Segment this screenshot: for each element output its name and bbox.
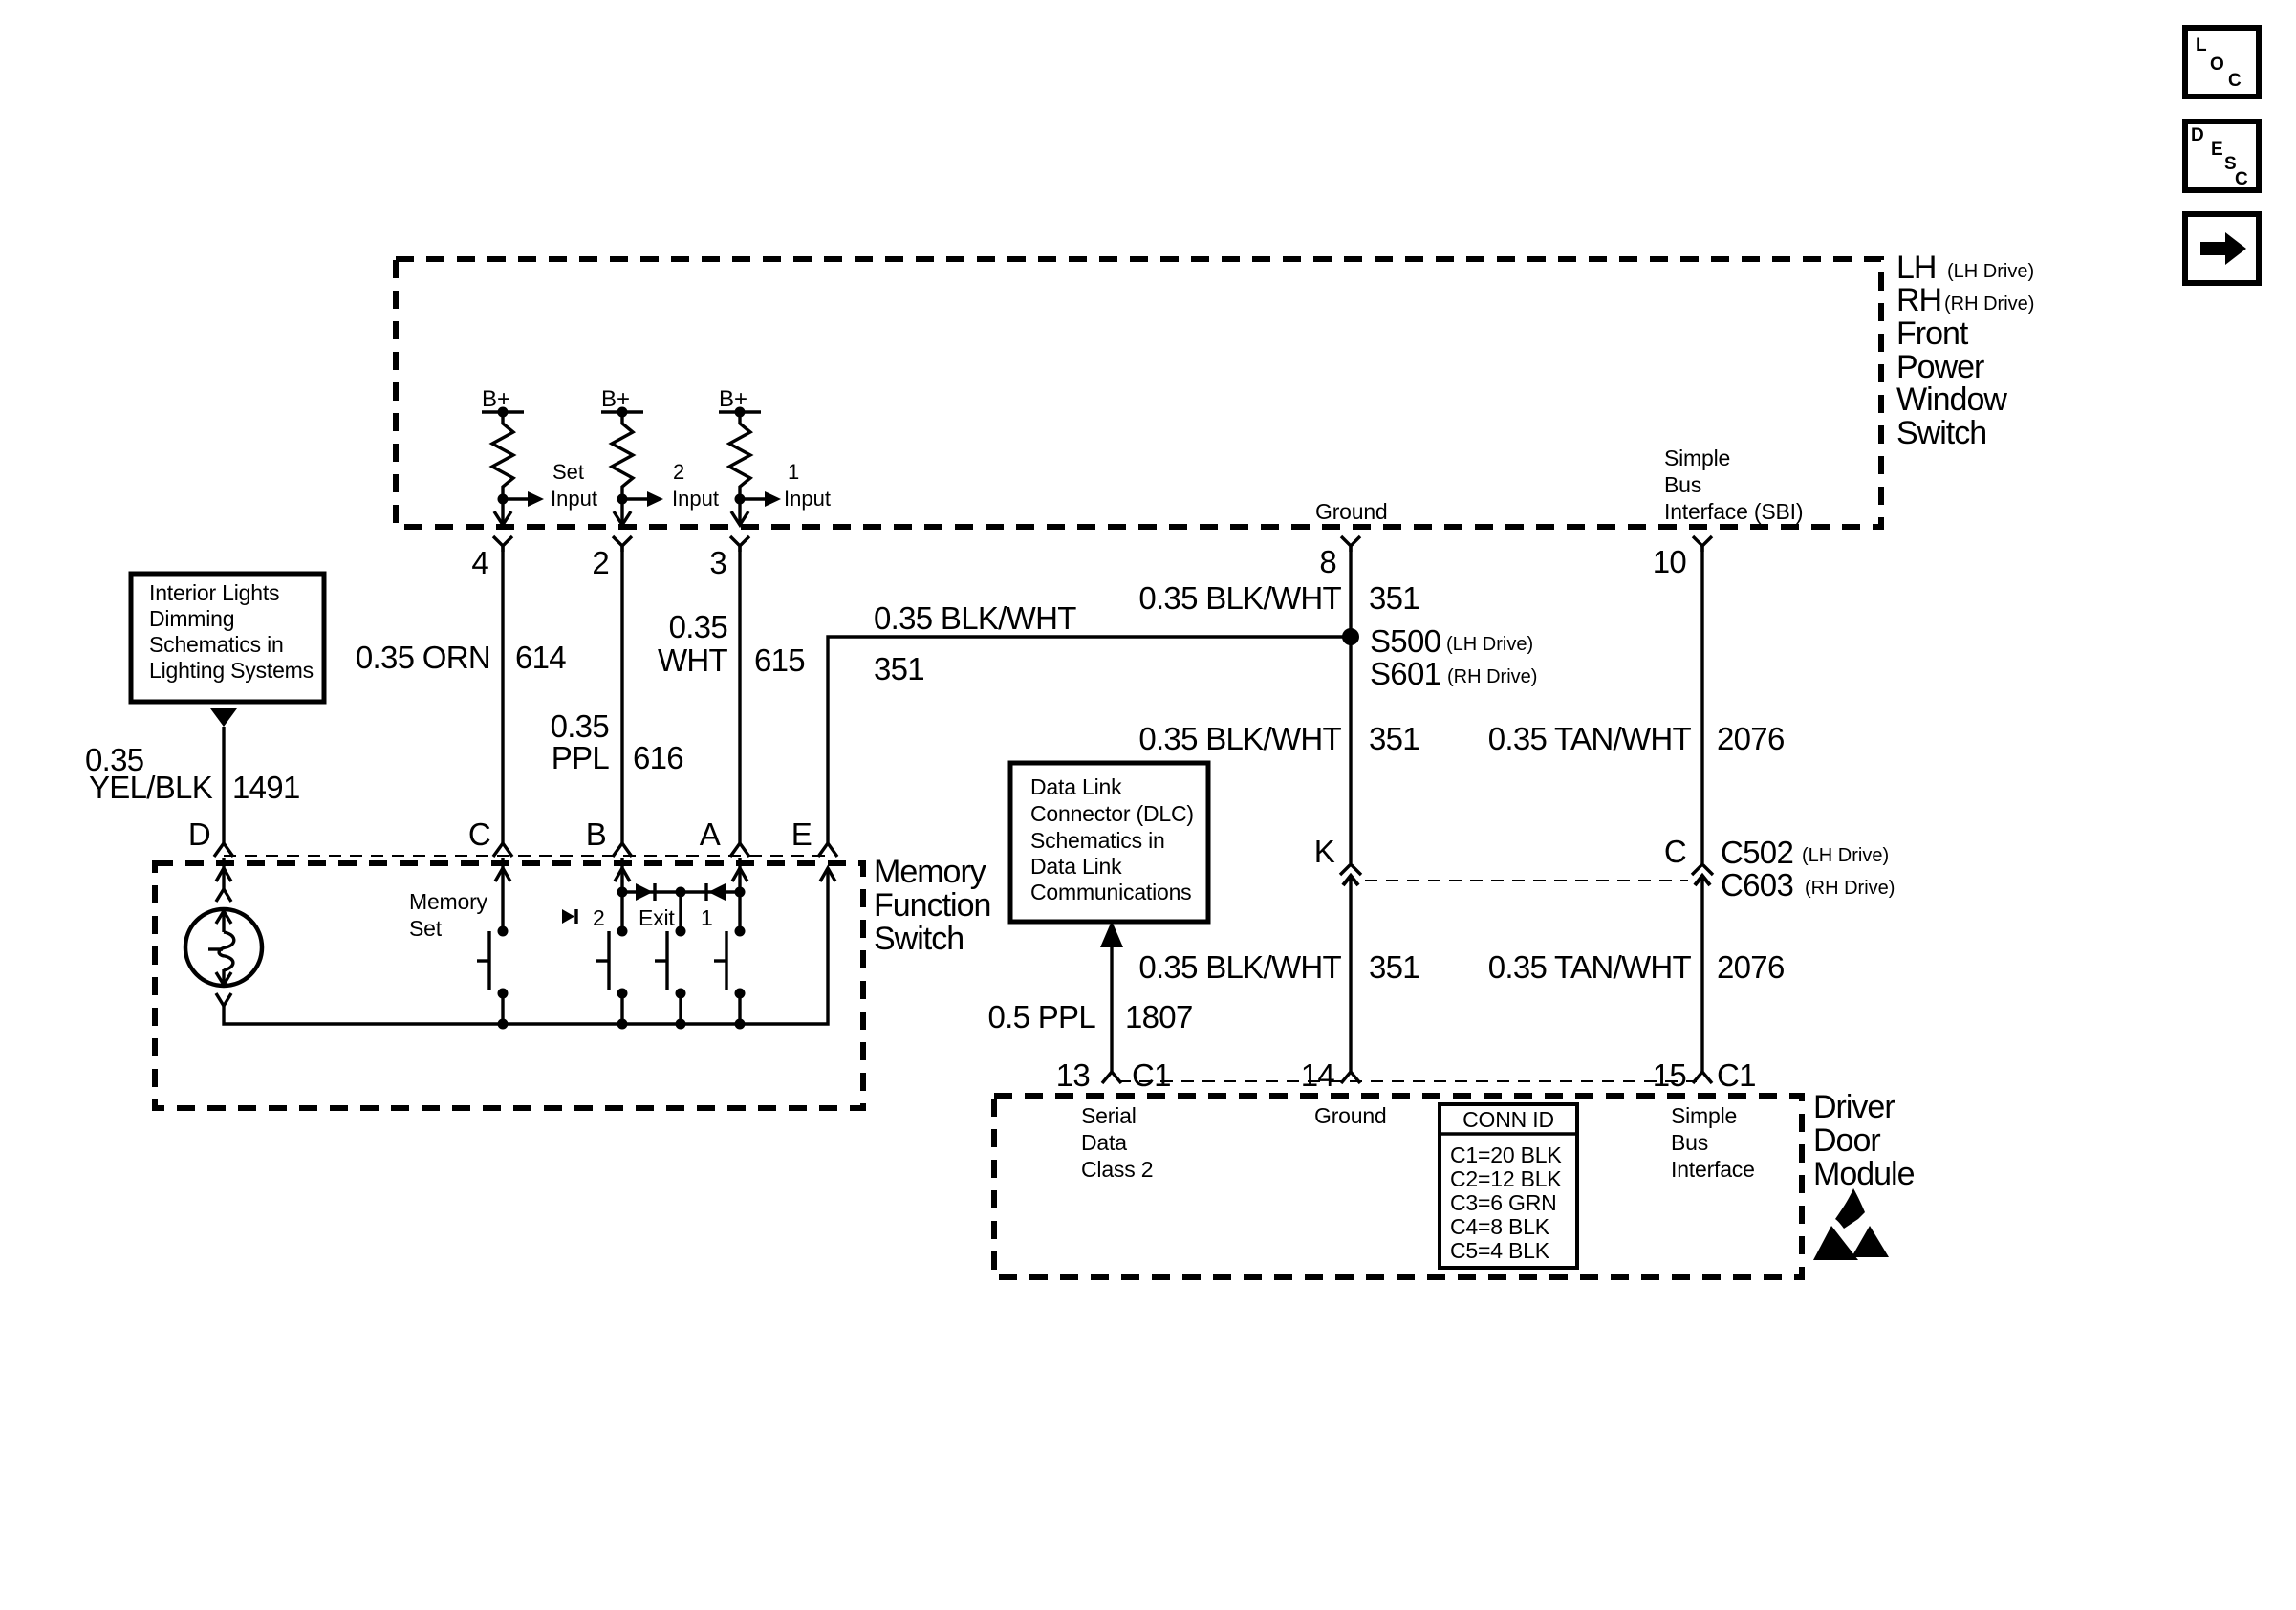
wire exit node down bbox=[679, 892, 682, 931]
svg-text:0.35: 0.35 bbox=[551, 708, 609, 744]
CONN ID table bbox=[1440, 1104, 1577, 1268]
in-line connector C502/C603 bbox=[1692, 835, 1895, 903]
svg-text:1: 1 bbox=[788, 460, 799, 484]
svg-text:C1=20 BLK: C1=20 BLK bbox=[1450, 1142, 1562, 1167]
svg-text:S500: S500 bbox=[1370, 623, 1441, 659]
svg-text:C4=8 BLK: C4=8 BLK bbox=[1450, 1214, 1550, 1239]
svg-text:Interior Lights: Interior Lights bbox=[149, 580, 279, 605]
icon LOC button bbox=[2185, 28, 2259, 97]
inline harness dashed link bbox=[1365, 880, 1688, 881]
svg-text:616: 616 bbox=[633, 740, 683, 775]
junction Memory Set to bus bbox=[498, 1019, 509, 1030]
connector Y pin 3 (female) bbox=[730, 536, 749, 552]
svg-text:4: 4 bbox=[471, 545, 488, 580]
connector chevron pin 15 bbox=[1693, 1072, 1712, 1083]
svg-text:C: C bbox=[1664, 834, 1686, 869]
svg-text:10: 10 bbox=[1653, 544, 1687, 579]
wire lamp to common bus bbox=[224, 868, 828, 1024]
svg-text:Memory: Memory bbox=[874, 854, 986, 890]
svg-text:C3=6 GRN: C3=6 GRN bbox=[1450, 1190, 1557, 1215]
svg-text:K: K bbox=[1314, 834, 1335, 869]
svg-text:1807: 1807 bbox=[1125, 999, 1193, 1034]
svg-text:0.35 BLK/WHT: 0.35 BLK/WHT bbox=[1138, 721, 1341, 756]
svg-text:(LH Drive): (LH Drive) bbox=[1446, 634, 1533, 655]
label Memory Function Switch bbox=[874, 854, 990, 957]
svg-text:S601: S601 bbox=[1370, 656, 1440, 691]
B+ supply node (1 column) bbox=[719, 386, 761, 418]
svg-text:RH: RH bbox=[1896, 282, 1941, 318]
module connector row dashed line bbox=[1118, 1080, 1697, 1082]
svg-text:D: D bbox=[2191, 125, 2204, 145]
label 0.35 YEL/BLK bbox=[85, 742, 213, 805]
splice S500/S601 bbox=[1342, 623, 1537, 691]
junction switch 2 to bus bbox=[617, 1019, 628, 1030]
label 0.35 PPL bbox=[551, 708, 610, 775]
connector Y pin 8 (female) bbox=[1341, 536, 1360, 552]
connector Y pin 4 (female) bbox=[493, 536, 512, 552]
wire K to pin 14 bbox=[1349, 877, 1352, 1073]
svg-text:Ground: Ground bbox=[1315, 499, 1388, 524]
svg-text:Simple: Simple bbox=[1664, 446, 1730, 470]
svg-text:Switch: Switch bbox=[874, 921, 964, 957]
diode isolation row bbox=[617, 887, 746, 898]
svg-text:0.35 TAN/WHT: 0.35 TAN/WHT bbox=[1488, 949, 1692, 985]
label Memory Set bbox=[409, 889, 488, 941]
wire 1491 YEL/BLK bbox=[222, 727, 225, 843]
svg-text:Set: Set bbox=[552, 460, 584, 484]
svg-text:C1: C1 bbox=[1132, 1057, 1171, 1093]
connector chevron pin 13 bbox=[1102, 1072, 1121, 1083]
svg-text:351: 351 bbox=[1369, 580, 1419, 616]
svg-text:L: L bbox=[2196, 35, 2207, 55]
svg-text:Memory: Memory bbox=[409, 889, 488, 914]
off-page pointer triangle bbox=[210, 708, 237, 727]
svg-text:Input: Input bbox=[551, 487, 597, 511]
label 0.35 WHT bbox=[658, 609, 728, 678]
svg-text:(LH Drive): (LH Drive) bbox=[1802, 845, 1889, 866]
svg-text:PPL: PPL bbox=[552, 740, 610, 775]
svg-text:351: 351 bbox=[874, 651, 924, 686]
svg-text:351: 351 bbox=[1369, 949, 1419, 985]
label Simple Bus Interface (module pin 15) bbox=[1671, 1103, 1755, 1182]
svg-text:0.35: 0.35 bbox=[669, 609, 727, 644]
svg-text:C: C bbox=[2228, 71, 2242, 91]
icon DESC button bbox=[2185, 121, 2259, 190]
svg-text:2076: 2076 bbox=[1717, 721, 1785, 756]
svg-text:Class 2: Class 2 bbox=[1081, 1157, 1153, 1182]
B+ supply node (2 column) bbox=[601, 386, 643, 418]
svg-text:Driver: Driver bbox=[1813, 1089, 1895, 1125]
connector row dashed line (memory switch header) bbox=[224, 855, 828, 857]
svg-text:2076: 2076 bbox=[1717, 949, 1785, 985]
icon forward arrow button bbox=[2185, 214, 2259, 283]
svg-text:C502: C502 bbox=[1721, 835, 1793, 870]
svg-text:Data: Data bbox=[1081, 1130, 1127, 1155]
svg-text:Front: Front bbox=[1896, 315, 1969, 352]
illumination lamp bbox=[185, 909, 262, 1006]
svg-text:B: B bbox=[586, 816, 606, 852]
svg-text:(LH Drive): (LH Drive) bbox=[1947, 261, 2034, 282]
connector inverted-Y terminal E bbox=[818, 843, 837, 857]
diode D1 (B to exit node) bbox=[636, 883, 655, 901]
switch Exit bbox=[655, 926, 686, 1025]
svg-text:1: 1 bbox=[701, 905, 713, 930]
svg-text:Data Link: Data Link bbox=[1030, 854, 1122, 879]
svg-text:Simple: Simple bbox=[1671, 1103, 1737, 1128]
arrow Set Input bbox=[503, 460, 597, 511]
junction Exit to bus bbox=[676, 1019, 686, 1030]
svg-text:YEL/BLK: YEL/BLK bbox=[89, 770, 213, 805]
connector inverted-Y terminal A bbox=[730, 843, 749, 857]
svg-text:615: 615 bbox=[754, 642, 805, 678]
ESD sensitivity symbol bbox=[1813, 1188, 1889, 1260]
wire pin3 to terminal A bbox=[738, 546, 741, 843]
switch Memory Set bbox=[477, 926, 509, 1025]
svg-text:8: 8 bbox=[1319, 544, 1336, 579]
svg-text:2: 2 bbox=[592, 545, 609, 580]
in-line connector K bbox=[1340, 864, 1361, 885]
switch window 1 bbox=[714, 926, 746, 1025]
svg-text:Bus: Bus bbox=[1671, 1130, 1708, 1155]
svg-text:CONN ID: CONN ID bbox=[1462, 1107, 1554, 1132]
svg-text:Function: Function bbox=[874, 887, 990, 924]
svg-text:(RH Drive): (RH Drive) bbox=[1944, 294, 2034, 315]
connector inverted-Y terminal C bbox=[493, 843, 512, 857]
label Driver Door Module bbox=[1813, 1089, 1915, 1192]
connector Y pin 10 (female) bbox=[1693, 536, 1712, 552]
svg-text:0.35 TAN/WHT: 0.35 TAN/WHT bbox=[1488, 721, 1692, 756]
svg-text:Input: Input bbox=[672, 487, 719, 511]
svg-text:E: E bbox=[791, 816, 812, 852]
B+ supply node (set column) bbox=[482, 386, 524, 418]
connector chevron pin 4 (male) bbox=[494, 511, 511, 525]
wire 1 column to pin 3 bbox=[738, 499, 741, 525]
connector chevron pin 14 bbox=[1341, 1072, 1360, 1083]
svg-text:D: D bbox=[188, 816, 210, 852]
arrow into memory box terminal A bbox=[732, 858, 747, 931]
svg-text:Connector (DLC): Connector (DLC) bbox=[1030, 801, 1194, 826]
junction switch 1 to bus bbox=[735, 1019, 746, 1030]
svg-text:Interface: Interface bbox=[1671, 1157, 1755, 1182]
svg-text:Door: Door bbox=[1813, 1122, 1880, 1159]
junction 2 column bbox=[617, 494, 628, 505]
svg-text:Interface (SBI): Interface (SBI) bbox=[1664, 499, 1803, 524]
svg-text:3: 3 bbox=[709, 545, 726, 580]
Interior Lights Dimming reference box bbox=[131, 574, 324, 702]
svg-text:Ground: Ground bbox=[1314, 1103, 1387, 1128]
resistor 1-input pull-up bbox=[729, 412, 750, 499]
diode D2 (A to exit node) bbox=[706, 883, 726, 901]
wire terminal D into lamp bbox=[216, 858, 231, 902]
svg-text:Lighting Systems: Lighting Systems bbox=[149, 658, 314, 683]
arrow 2 Input bbox=[622, 460, 719, 511]
connector Y pin 2 (female) bbox=[613, 536, 632, 552]
svg-text:Schematics in: Schematics in bbox=[149, 632, 284, 657]
svg-text:Communications: Communications bbox=[1030, 880, 1192, 904]
svg-text:C5=4 BLK: C5=4 BLK bbox=[1450, 1238, 1550, 1263]
connector chevron pin 3 (male) bbox=[731, 511, 748, 525]
diode glyph next to label 2 bbox=[562, 909, 576, 924]
svg-text:C603: C603 bbox=[1721, 867, 1793, 903]
wire pin2 to terminal B bbox=[620, 546, 623, 843]
label Serial Data Class 2 bbox=[1081, 1103, 1153, 1182]
resistor 2-input pull-up bbox=[612, 412, 633, 499]
label LH RH Front Power Window Switch bbox=[1896, 250, 2034, 451]
svg-text:C2=12 BLK: C2=12 BLK bbox=[1450, 1166, 1562, 1191]
svg-text:Switch: Switch bbox=[1896, 415, 1986, 451]
svg-text:Bus: Bus bbox=[1664, 472, 1701, 497]
svg-text:0.35 BLK/WHT: 0.35 BLK/WHT bbox=[1138, 580, 1341, 616]
svg-text:Exit: Exit bbox=[639, 905, 675, 930]
svg-text:0.35 BLK/WHT: 0.35 BLK/WHT bbox=[1138, 949, 1341, 985]
arrow into memory box terminal B bbox=[615, 858, 630, 931]
svg-text:Schematics in: Schematics in bbox=[1030, 828, 1165, 853]
svg-text:0.35 ORN: 0.35 ORN bbox=[356, 640, 490, 675]
svg-text:C1: C1 bbox=[1717, 1057, 1756, 1093]
arrow 1 Input bbox=[740, 460, 831, 511]
wire 2 column to pin 2 bbox=[620, 499, 623, 525]
junction set column bbox=[498, 494, 509, 505]
wire pin 10 SBI to C502 bbox=[1700, 546, 1703, 863]
Memory Function Switch dashed box bbox=[155, 863, 863, 1108]
svg-text:WHT: WHT bbox=[658, 642, 728, 678]
wire 351 BLK/WHT horizontal run to S500 bbox=[828, 637, 1351, 843]
svg-text:2: 2 bbox=[673, 460, 684, 484]
wire set column to pin 4 bbox=[501, 499, 504, 525]
switch window 2 bbox=[596, 926, 628, 1025]
svg-text:0.5 PPL: 0.5 PPL bbox=[987, 999, 1095, 1034]
svg-text:(RH Drive): (RH Drive) bbox=[1447, 666, 1537, 687]
svg-text:C: C bbox=[2235, 169, 2248, 189]
svg-text:LH: LH bbox=[1896, 250, 1936, 286]
wire pin 8 ground to K bbox=[1349, 546, 1352, 863]
svg-text:Data Link: Data Link bbox=[1030, 774, 1122, 799]
svg-text:Dimming: Dimming bbox=[149, 606, 234, 631]
svg-text:E: E bbox=[2211, 140, 2223, 160]
off-page arrow to DLC bbox=[1100, 921, 1123, 947]
arrow into memory box terminal E bbox=[820, 868, 835, 881]
junction 1 column bbox=[735, 494, 746, 505]
wire 1807 PPL serial data bbox=[1110, 946, 1113, 1073]
svg-text:2: 2 bbox=[593, 905, 605, 930]
svg-text:Window: Window bbox=[1896, 381, 2007, 418]
Data Link Connector reference box bbox=[1010, 763, 1208, 922]
svg-text:14: 14 bbox=[1301, 1057, 1335, 1093]
svg-text:614: 614 bbox=[515, 640, 566, 675]
wire C502 to pin 15 bbox=[1700, 877, 1703, 1073]
connector chevron pin 2 (male) bbox=[614, 511, 631, 525]
svg-text:Set: Set bbox=[409, 916, 443, 941]
resistor set-input pull-up bbox=[492, 412, 513, 499]
svg-text:Input: Input bbox=[784, 487, 831, 511]
svg-text:Power: Power bbox=[1896, 349, 1984, 385]
svg-text:351: 351 bbox=[1369, 721, 1419, 756]
Driver Door Module dashed box bbox=[994, 1096, 1802, 1277]
svg-text:15: 15 bbox=[1653, 1057, 1686, 1093]
svg-text:O: O bbox=[2210, 54, 2224, 75]
connector inverted-Y terminal B bbox=[613, 843, 632, 857]
svg-text:Module: Module bbox=[1813, 1156, 1915, 1192]
svg-text:0.35 BLK/WHT: 0.35 BLK/WHT bbox=[874, 600, 1076, 636]
svg-text:1491: 1491 bbox=[232, 770, 300, 805]
wire pin4 to terminal C bbox=[501, 546, 504, 843]
svg-text:Serial: Serial bbox=[1081, 1103, 1137, 1128]
svg-text:C: C bbox=[468, 816, 490, 852]
svg-text:A: A bbox=[700, 816, 721, 852]
label Simple Bus Interface (SBI) bbox=[1664, 446, 1803, 524]
svg-text:13: 13 bbox=[1056, 1057, 1090, 1093]
Front Power Window Switch dashed box bbox=[396, 259, 1881, 527]
arrow into memory box terminal C bbox=[495, 858, 510, 931]
connector inverted-Y terminal D bbox=[214, 843, 233, 857]
svg-text:(RH Drive): (RH Drive) bbox=[1805, 878, 1895, 899]
